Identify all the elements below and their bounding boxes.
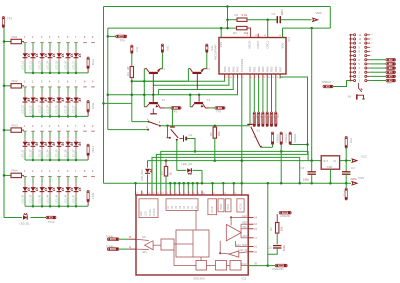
wire S4 row 5 to pad — [370, 63, 386, 65]
wire regulator gnd — [329, 169, 331, 183]
wire IC2 pin drop — [135, 183, 137, 190]
test pad TP2 — [171, 107, 181, 110]
LED D16 — [67, 43, 69, 50]
LED D26 — [67, 87, 69, 94]
svg-text:LED_34: LED_34 — [46, 149, 49, 159]
svg-text:VSS: VSS — [358, 176, 364, 180]
test pad on RB4 — [266, 79, 268, 113]
LED D36 — [67, 131, 69, 138]
svg-text:ANAMIC: ANAMIC — [280, 214, 291, 218]
IC2 pin stub — [187, 191, 189, 196]
wire VDD right vertical — [329, 7, 331, 29]
svg-text:5.1k: 5.1k — [242, 13, 248, 17]
resistor R2 — [237, 26, 248, 29]
wire VDD drop to regulator — [310, 27, 313, 30]
svg-text:TP9: TP9 — [120, 39, 126, 43]
wire G1 to bus — [187, 139, 195, 152]
svg-text:ISD1400: ISD1400 — [193, 277, 205, 281]
connector S4 pin row 9 — [350, 46, 353, 48]
IC2 pin stub — [201, 191, 203, 196]
LED D46 — [67, 177, 69, 184]
svg-text:LED_42: LED_42 — [29, 194, 32, 204]
IC2 pin stub — [192, 191, 194, 196]
connector S4 pin row 2 — [350, 75, 353, 77]
capacitor C5 — [276, 233, 278, 244]
connector S4 pin row 3 — [350, 71, 353, 73]
wire IC2 pin drop — [178, 183, 180, 190]
wire main left vertical — [103, 7, 105, 184]
test pad TP9 — [107, 35, 110, 38]
svg-text:IC1: IC1 — [287, 37, 291, 42]
svg-text:LED_36: LED_36 — [64, 149, 67, 159]
LED D45 — [58, 177, 60, 184]
IC2 internal buffer triangle — [229, 251, 239, 257]
svg-text:OSC2: OSC2 — [256, 40, 260, 48]
svg-text:LED_13: LED_13 — [38, 60, 41, 70]
svg-text:LED_35: LED_35 — [55, 149, 58, 159]
IC2 pin stub — [135, 191, 137, 196]
IC1 pin OSC2 — [257, 34, 259, 38]
svg-text:3: 3 — [243, 77, 244, 79]
svg-text:12: 12 — [277, 77, 279, 79]
svg-text:LED_17: LED_17 — [72, 60, 75, 70]
wire R2 to MCLR — [247, 28, 251, 37]
test pad TP11 below — [345, 188, 347, 200]
connector S4 pin row 7 — [350, 55, 353, 57]
test pad TP8 — [345, 136, 347, 148]
wire regulator out — [340, 160, 351, 162]
IC2 pin stub — [212, 191, 214, 196]
op IC1 PIC16F84 body — [219, 38, 286, 75]
test pad TPB51 — [386, 58, 396, 61]
svg-text:TPB0: TPB0 — [277, 114, 279, 119]
svg-text:PLAYL: PLAYL — [149, 208, 152, 216]
wire ground bus — [104, 182, 352, 184]
svg-text:LED_A6: LED_A6 — [181, 162, 192, 166]
test pad TP3 — [215, 107, 225, 110]
svg-text:LED_33: LED_33 — [38, 149, 41, 159]
IC2 internal opamp — [226, 224, 241, 240]
IC2 VSSD block — [218, 199, 224, 212]
IC2 control block — [139, 199, 158, 218]
svg-text:6: 6 — [251, 77, 252, 79]
svg-text:VCCA: VCCA — [240, 203, 243, 210]
svg-text:LED_BL: LED_BL — [20, 221, 31, 225]
svg-text:R2: R2 — [233, 31, 237, 35]
LED D31 — [24, 131, 26, 138]
LED D25 — [58, 87, 60, 94]
svg-text:LED: LED — [144, 211, 147, 216]
svg-text:LED_22: LED_22 — [29, 105, 32, 115]
svg-text:TPB4: TPB4 — [260, 114, 262, 119]
test pad TPB21 — [386, 71, 396, 74]
svg-text:LED_21: LED_21 — [21, 105, 24, 115]
test pad TPB1D — [280, 132, 282, 145]
svg-text:TP21: TP21 — [91, 102, 95, 109]
wire LED_BL row — [4, 217, 22, 219]
wire row 4 cathode bus — [25, 205, 87, 207]
LED D24 — [49, 87, 51, 94]
test pad on RB5 — [271, 79, 273, 113]
wire S4 row 3 to pad — [370, 71, 386, 73]
svg-text:LED_24: LED_24 — [46, 105, 49, 115]
IC2 pin 26 AGND — [248, 265, 268, 267]
test pad TPB01 — [386, 79, 396, 82]
wire RB7 jog right — [279, 78, 281, 79]
svg-text:100n: 100n — [282, 245, 286, 251]
wire T3 to TP3 — [209, 107, 215, 109]
wire row 2 cathode bus — [25, 115, 87, 117]
wire S4 row1 to TPB4-0 — [333, 81, 350, 87]
IC2 memory array — [176, 230, 209, 257]
svg-text:TPB4-0: TPB4-0 — [322, 80, 332, 84]
wire TPB1D vertical to ground — [280, 145, 282, 184]
wire S2 output to LED_A6 — [176, 140, 178, 170]
svg-text:VSS: VSS — [219, 42, 223, 48]
svg-text:TP1: TP1 — [7, 17, 13, 21]
svg-text:TPB2D: TPB2D — [293, 134, 297, 143]
LED D41 — [24, 177, 26, 184]
svg-text:RN3: RN3 — [12, 123, 18, 127]
IC2 input block — [161, 239, 174, 250]
svg-text:17: 17 — [225, 77, 227, 79]
wire audio bus D regulator feed — [147, 160, 149, 162]
svg-text:9: 9 — [264, 77, 265, 79]
wire RA2 bus — [158, 79, 233, 90]
LED D22 — [32, 87, 34, 94]
connector S4 pin row 1 — [350, 80, 353, 82]
IC2 pin SP+ — [128, 248, 136, 250]
test pad TPB41 — [386, 63, 396, 66]
LED D12 — [32, 43, 34, 50]
wire RN1 input — [4, 41, 11, 43]
connector S4 pin row 4 — [350, 67, 353, 69]
svg-text:LED_41: LED_41 — [21, 194, 24, 204]
svg-text:LED_27: LED_27 — [72, 105, 75, 115]
wire S4 row 2 to pad — [370, 75, 386, 77]
svg-text:TPB01: TPB01 — [387, 83, 393, 85]
svg-text:IN: IN — [334, 160, 337, 163]
test pad TP31 row 3 — [87, 144, 89, 156]
wire RA3 main bus — [108, 79, 238, 95]
LED D15 — [58, 43, 60, 50]
test pad TP10 — [46, 216, 56, 219]
svg-text:LED_37: LED_37 — [72, 149, 75, 159]
test pad TP21 row 2 — [87, 101, 89, 113]
svg-text:TP11: TP11 — [343, 190, 347, 197]
test pad TON6+ — [119, 248, 128, 250]
supply arrow VSS — [351, 181, 357, 185]
LED D33 — [41, 131, 43, 138]
IC2 pin stub — [151, 191, 153, 196]
svg-text:220: 220 — [217, 131, 221, 136]
wire IC2 pin drop — [174, 183, 176, 190]
connector S4 pin row 5 — [350, 63, 353, 65]
test pad on RB6 — [275, 79, 277, 113]
svg-text:OUT: OUT — [323, 160, 329, 163]
IC1 pin VSS — [220, 28, 222, 37]
svg-text:VCCD: VCCD — [212, 206, 214, 213]
test pad ANAGND — [268, 265, 275, 267]
supply arrow VDD — [312, 18, 318, 22]
IC2 address block — [166, 199, 198, 211]
svg-text:R3: R3 — [160, 171, 164, 175]
svg-text:RN1: RN1 — [12, 35, 18, 39]
svg-text:LED_16: LED_16 — [64, 60, 67, 70]
svg-text:TPB0D: TPB0D — [276, 134, 280, 143]
svg-text:TOCKRA4: TOCKRA4 — [240, 58, 244, 72]
wire x104 to S1 bus — [102, 102, 105, 105]
svg-text:VSSD: VSSD — [221, 203, 223, 210]
wire IC2 pin drop — [169, 183, 171, 190]
IC2 pin stub — [196, 191, 198, 196]
IC2 pin stub — [222, 191, 224, 196]
svg-text:VCC: VCC — [361, 155, 368, 159]
op IC2 ISD1400 body — [136, 195, 248, 275]
LED D21 — [24, 87, 26, 94]
wire OSC1 down — [267, 20, 269, 38]
wire R1 feed vertical — [226, 5, 229, 8]
wire emitter bus — [132, 80, 189, 82]
svg-text:C4: C4 — [351, 166, 355, 170]
wire audio bus A — [161, 151, 308, 190]
test pad TP5 — [161, 44, 163, 53]
LED D34 — [49, 131, 51, 138]
svg-text:LED_11: LED_11 — [21, 61, 24, 70]
wire S4 row 1 to pad — [370, 80, 386, 82]
wire C5 to ground — [268, 248, 277, 254]
svg-text:R6: R6 — [269, 227, 273, 231]
wire S1 throw to S3 — [160, 125, 249, 127]
wire T1 collector to TP5 — [161, 53, 163, 69]
svg-text:R5: R5 — [209, 132, 213, 136]
svg-text:LED_44: LED_44 — [46, 194, 49, 204]
wire LED_BL to pad — [30, 217, 46, 219]
test pad TP6 — [206, 44, 208, 53]
LED D13 — [41, 43, 43, 50]
connector S4 pin row 8 — [350, 50, 353, 52]
wire RA1 bus — [153, 79, 229, 86]
IC2 VCCA block — [237, 199, 244, 212]
supply arrow VCC — [351, 159, 357, 163]
IC2 pin stub — [165, 191, 167, 196]
svg-text:1: 1 — [234, 77, 235, 79]
svg-text:SP+: SP+ — [143, 250, 148, 254]
svg-text:TPB2: TPB2 — [268, 114, 270, 119]
svg-text:TPB1: TPB1 — [272, 114, 274, 119]
svg-text:TP41: TP41 — [91, 192, 95, 199]
test pad TPB0D — [271, 132, 273, 145]
test pad on RB2 — [258, 79, 260, 113]
svg-text:R4: R4 — [126, 72, 130, 76]
wire T2 to TP2 — [165, 107, 171, 109]
svg-text:G1: G1 — [189, 133, 193, 137]
test pad TON6- — [119, 238, 128, 240]
IC2 pin stub — [155, 191, 157, 196]
IC2 pin stub — [183, 191, 185, 196]
svg-text:GND: GND — [327, 166, 333, 169]
wire left LED bus vertical — [3, 28, 5, 218]
svg-text:100n: 100n — [303, 178, 309, 182]
wire row 3 cathode bus — [25, 159, 87, 161]
wire T1 base — [152, 73, 154, 102]
svg-text:S1: S1 — [257, 129, 261, 133]
svg-text:2: 2 — [238, 77, 239, 79]
svg-text:LED_25: LED_25 — [55, 105, 58, 115]
wire S4 row 6 to pad — [370, 59, 386, 61]
svg-text:T2: T2 — [162, 98, 166, 102]
svg-text:RN2: RN2 — [12, 79, 18, 83]
IC2 pin stub — [147, 191, 149, 196]
svg-text:S4: S4 — [348, 95, 352, 99]
battery G1 — [180, 138, 183, 140]
LED D35 — [58, 131, 60, 138]
wire IC2 pin drop — [233, 183, 235, 190]
wire S4 row 4 to pad — [370, 67, 386, 69]
IC2 speaker amp — [145, 241, 154, 250]
wire S3 to TPB pad — [262, 146, 273, 148]
wire RA4 long vertical — [241, 79, 243, 184]
test pad on RB1 — [253, 79, 255, 113]
svg-text:TPB5: TPB5 — [255, 114, 257, 119]
svg-text:MCLR: MCLR — [248, 41, 252, 49]
IC2 pin stub — [174, 191, 176, 196]
svg-text:18: 18 — [230, 77, 232, 79]
wire second vertical — [107, 28, 109, 130]
svg-text:LED_32: LED_32 — [29, 149, 32, 159]
IC2 internal wires — [230, 216, 232, 218]
resistor R6 — [276, 214, 278, 222]
LED D43 — [41, 177, 43, 184]
wire row 1 cathode bus — [25, 72, 87, 74]
wire VDD lower horizontal left — [108, 27, 237, 29]
test pad TPB2D — [289, 132, 291, 145]
svg-text:10: 10 — [268, 77, 270, 79]
wire RA0 bus — [132, 79, 225, 82]
svg-text:C1: C1 — [272, 12, 276, 16]
svg-text:T3: T3 — [207, 98, 211, 102]
LED LED_BL — [23, 215, 27, 219]
test pad TP11 row 1 — [87, 57, 89, 69]
LED D14 — [49, 43, 51, 50]
svg-text:VDD: VDD — [281, 43, 285, 49]
wire TPB2D to RB7 vertical — [290, 144, 307, 146]
test pad ANAMIC — [279, 211, 291, 214]
svg-text:LED_43: LED_43 — [38, 194, 41, 204]
wire T4 base — [196, 73, 198, 90]
IC2 right pins — [248, 216, 253, 218]
svg-text:TP5: TP5 — [165, 46, 169, 52]
wire RN2 input — [4, 85, 11, 87]
IC2 pin stub — [141, 191, 143, 196]
wire R4 to bus — [131, 78, 133, 122]
svg-text:LED_45: LED_45 — [55, 194, 58, 204]
svg-text:11: 11 — [272, 77, 274, 79]
connector S4 pin row 10 — [350, 42, 353, 44]
svg-text:ANAGND: ANAGND — [272, 267, 284, 271]
test pad TP4 — [131, 45, 133, 54]
IC2 bottom blocks — [196, 261, 207, 271]
connector S4 left rail — [349, 35, 351, 81]
svg-text:IC2: IC2 — [242, 277, 247, 281]
svg-text:100n: 100n — [280, 9, 284, 16]
wire IC2 pin drop — [212, 183, 214, 190]
wire IC2 pin drop — [222, 183, 224, 190]
wire audio bus B — [156, 154, 307, 190]
svg-text:TP11: TP11 — [91, 59, 95, 66]
LED D32 — [32, 131, 34, 138]
wire IC2 pin drop — [196, 183, 198, 190]
LED D27 — [75, 87, 77, 94]
switch S2 — [170, 126, 175, 128]
IC2 pin stub — [169, 191, 171, 196]
IC2 pin stub — [233, 191, 235, 196]
svg-text:10k: 10k — [280, 226, 284, 231]
svg-text:LED_REC: LED_REC — [140, 169, 144, 181]
svg-text:C5: C5 — [268, 246, 272, 250]
test pad TP1 — [2, 17, 4, 28]
svg-text:TP8: TP8 — [349, 138, 353, 144]
LED D17 — [75, 43, 77, 50]
wire IC2 pin drop — [192, 183, 194, 190]
svg-text:PLAYE: PLAYE — [153, 208, 156, 216]
svg-text:TP3: TP3 — [216, 110, 222, 114]
svg-text:LED_14: LED_14 — [46, 60, 49, 70]
svg-text:R1: R1 — [235, 13, 239, 17]
IC2 pin SP- — [128, 238, 136, 240]
wire RN3 input — [4, 129, 11, 131]
test pad TPB11 — [386, 75, 396, 78]
wire VDD lower horizontal right — [283, 27, 331, 29]
LED D44 — [49, 177, 51, 184]
wire audio bus C — [152, 157, 300, 190]
svg-text:TPB1D: TPB1D — [284, 134, 288, 143]
LED D37 — [75, 131, 77, 138]
resistor R5 — [214, 126, 216, 127]
svg-text:TP4: TP4 — [135, 47, 139, 53]
svg-text:LED_47: LED_47 — [72, 194, 75, 204]
svg-text:TPB3: TPB3 — [264, 114, 266, 119]
wire IC2 pin drop — [183, 183, 185, 190]
LED D11 — [24, 43, 26, 50]
connector S4 pin row 11 — [350, 38, 353, 40]
test pad TPB31 — [386, 67, 396, 70]
IC2 pin stub — [160, 191, 162, 196]
svg-text:TP10: TP10 — [48, 220, 55, 224]
svg-text:7: 7 — [255, 77, 256, 79]
svg-text:VDD: VDD — [316, 11, 323, 15]
IC1 pin VDD — [282, 28, 284, 37]
IC2 VCCD block — [208, 199, 217, 215]
svg-text:LED_26: LED_26 — [64, 105, 67, 115]
wire RN4 input — [4, 174, 11, 176]
svg-text:220m: 220m — [351, 177, 358, 181]
connector S4 pin row 12 — [350, 34, 353, 36]
switch S1 — [152, 108, 154, 113]
svg-text:OSC1: OSC1 — [266, 40, 270, 48]
wire TP2 to S2 — [171, 110, 173, 127]
svg-text:C3: C3 — [301, 166, 305, 170]
svg-text:LED_12: LED_12 — [29, 60, 32, 70]
svg-text:27: 27 — [126, 66, 130, 70]
wire C1 to VDD arrow — [280, 19, 311, 21]
connector S4 pin row 6 — [350, 59, 353, 61]
svg-text:SP-: SP- — [142, 235, 146, 239]
svg-text:REC: REC — [140, 211, 143, 216]
svg-text:RB7: RB7 — [278, 66, 282, 72]
svg-text:LED_23: LED_23 — [38, 105, 41, 115]
LED D47 — [75, 177, 77, 184]
